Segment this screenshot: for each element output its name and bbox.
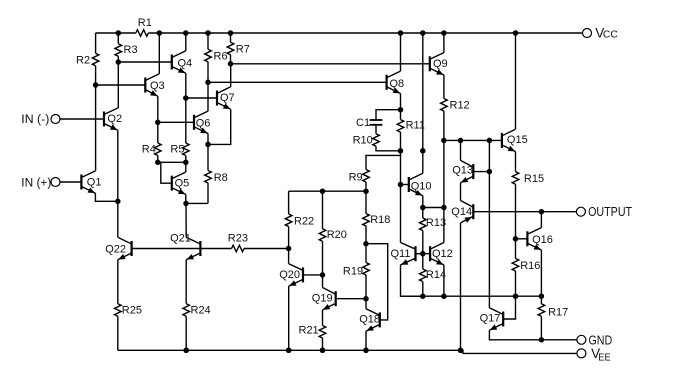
svg-text:R5: R5	[170, 144, 184, 156]
svg-text:GND: GND	[589, 332, 613, 347]
svg-text:Q18: Q18	[359, 314, 380, 326]
svg-text:R19: R19	[343, 265, 363, 277]
svg-text:Q22: Q22	[105, 244, 126, 256]
svg-text:Q4: Q4	[178, 57, 193, 69]
svg-text:C1: C1	[356, 117, 370, 129]
svg-text:R3: R3	[124, 44, 138, 56]
svg-text:IN (-): IN (-)	[21, 112, 49, 126]
svg-text:Q21: Q21	[170, 232, 191, 244]
svg-text:Q11: Q11	[391, 248, 411, 260]
svg-text:EE: EE	[598, 352, 611, 363]
svg-text:R15: R15	[524, 173, 544, 185]
svg-text:CC: CC	[603, 30, 618, 41]
svg-text:R7: R7	[236, 44, 250, 56]
svg-text:Q16: Q16	[532, 234, 553, 246]
svg-text:R20: R20	[327, 229, 347, 241]
svg-text:R1: R1	[138, 17, 152, 29]
svg-text:R16: R16	[520, 260, 540, 272]
svg-text:R21: R21	[299, 325, 319, 337]
svg-text:Q14: Q14	[451, 206, 472, 218]
svg-text:R11: R11	[406, 120, 425, 132]
svg-text:Q15: Q15	[507, 134, 528, 146]
svg-text:R17: R17	[548, 307, 568, 319]
svg-text:Q17: Q17	[480, 313, 501, 325]
svg-text:R10: R10	[353, 135, 373, 147]
svg-text:Q2: Q2	[107, 113, 122, 125]
svg-text:R8: R8	[214, 172, 228, 184]
svg-text:Q9: Q9	[433, 58, 448, 70]
svg-text:R18: R18	[370, 214, 390, 226]
svg-text:IN (+): IN (+)	[21, 175, 51, 189]
svg-text:R24: R24	[191, 304, 211, 316]
svg-text:Q13: Q13	[452, 164, 473, 176]
svg-text:R12: R12	[450, 99, 470, 111]
svg-text:Q7: Q7	[220, 92, 235, 104]
svg-text:Q6: Q6	[196, 117, 211, 129]
svg-text:R6: R6	[214, 51, 228, 63]
svg-text:Q8: Q8	[390, 78, 405, 90]
svg-text:R13: R13	[426, 217, 446, 229]
svg-text:Q5: Q5	[175, 177, 190, 189]
svg-text:Q12: Q12	[432, 248, 453, 260]
svg-text:Q19: Q19	[312, 293, 333, 305]
svg-text:R23: R23	[228, 232, 248, 244]
svg-text:Q20: Q20	[279, 269, 300, 281]
svg-text:R22: R22	[294, 215, 314, 227]
svg-text:Q3: Q3	[150, 80, 165, 92]
svg-text:R25: R25	[122, 304, 142, 316]
svg-text:Q1: Q1	[87, 177, 102, 189]
svg-text:R4: R4	[142, 144, 156, 156]
svg-text:R9: R9	[349, 172, 363, 184]
svg-text:R2: R2	[76, 54, 90, 66]
svg-text:OUTPUT: OUTPUT	[588, 204, 632, 219]
svg-text:R14: R14	[426, 269, 446, 281]
svg-text:Q10: Q10	[411, 180, 432, 192]
